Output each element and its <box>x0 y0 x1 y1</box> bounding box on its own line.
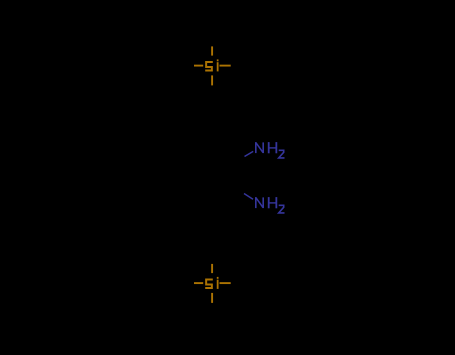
upper amine label NH2 <box>256 142 285 158</box>
bottom trimethylsilyl group: bond stubs <box>194 264 231 303</box>
top trimethylsilyl group: Si label <box>205 59 218 71</box>
bond C-N to upper amine (half-bond stub) <box>245 151 254 156</box>
bottom trimethylsilyl group: Si label <box>205 277 218 289</box>
bond C-N to lower amine (half-bond stub) <box>244 194 253 200</box>
top trimethylsilyl group: bond stubs <box>194 46 231 85</box>
lower amine label NH2 <box>256 197 285 213</box>
